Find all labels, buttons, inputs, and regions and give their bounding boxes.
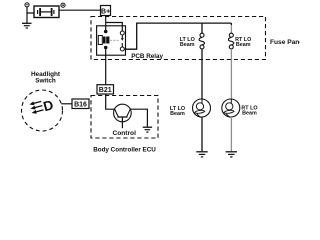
svg-text:B21: B21 [99, 87, 112, 94]
relay coil [98, 36, 109, 45]
headlight icon inside switch [29, 97, 55, 118]
battery G1 [34, 6, 59, 18]
dashed box PCB Relay / Fuse Panel [91, 17, 266, 60]
fuse F1 LT LO Beam [199, 33, 204, 49]
wire LT lamp to ground [201, 117, 203, 151]
svg-text:Beam: Beam [180, 42, 195, 48]
relay armature [121, 35, 124, 47]
wire drop to RT fuse (gray) [230, 23, 232, 25]
wire drop to LT fuse [201, 23, 203, 33]
ground battery [22, 23, 32, 28]
wire battery negative to ground [27, 7, 34, 23]
svg-text:Control: Control [112, 130, 136, 137]
svg-text:Switch: Switch [35, 78, 56, 85]
svg-text:Beam: Beam [242, 110, 257, 116]
wire RT fuse to RT lamp (gray) [230, 49, 232, 100]
wire RT lamp to ground (gray) [230, 117, 232, 151]
transistor Q1 Control [114, 104, 132, 128]
ground LT lamp [196, 152, 207, 157]
wire LT fuse to LT lamp [201, 49, 203, 100]
battery negative terminal symbol [25, 3, 29, 7]
connector B16 [72, 99, 89, 109]
ground RT lamp [226, 152, 237, 157]
relay coil terminal bottom (node) [104, 46, 108, 50]
connector B21 [97, 85, 114, 95]
wire branch B+ to relay contact [106, 23, 123, 32]
wire switch to B16 [61, 103, 72, 105]
lamp E1 LT LO Beam [193, 99, 211, 117]
wire relay contact to fuse panel feed [124, 23, 231, 49]
relay contact bottom pin [120, 47, 124, 51]
relay coil terminal top (node) [104, 30, 108, 34]
wire transistor emitter to ground [130, 109, 147, 127]
relay contact top pin [120, 31, 124, 35]
svg-text:Beam: Beam [170, 111, 185, 117]
lamp E2 RT LO Beam [222, 99, 240, 117]
wire B+ down to relay coil [105, 16, 107, 33]
relay K1 box [97, 26, 126, 55]
fuse F2 RT LO Beam [228, 33, 233, 49]
ground ECU [143, 127, 152, 132]
wire battery positive to B+ [59, 9, 101, 11]
connector B+ [101, 6, 111, 16]
svg-text:B16: B16 [74, 102, 87, 109]
relay mechanical link [110, 39, 119, 41]
headlight switch S1 (dashed circle) [22, 90, 63, 131]
wire relay coil to B21 [105, 49, 107, 85]
dashed box Body Controller ECU [91, 96, 158, 139]
wire B21 to transistor collector [106, 94, 115, 109]
svg-text:Fuse Panel: Fuse Panel [270, 39, 300, 46]
battery positive terminal symbol [61, 3, 65, 7]
svg-text:PCB Relay: PCB Relay [131, 53, 163, 60]
svg-text:Beam: Beam [236, 42, 251, 48]
svg-text:B+: B+ [101, 8, 110, 15]
svg-text:Body Controller ECU: Body Controller ECU [93, 147, 156, 154]
